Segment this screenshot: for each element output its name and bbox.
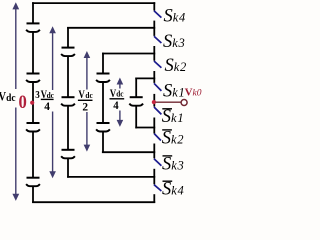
svg-text:dc: dc bbox=[85, 90, 93, 100]
capacitor Cdc3 (DC-link, third) bbox=[26, 123, 40, 132]
wire: bus F (S&#773;k2/S&#773;k3 junction to flying-cap branch 3) bbox=[102, 151, 155, 153]
svg-text:dc: dc bbox=[6, 92, 16, 104]
capacitor Cdc2 (DC-link, second) bbox=[26, 74, 40, 83]
svg-text:Sk2: Sk2 bbox=[162, 129, 184, 149]
annotation arrow Vdc (double-headed, full DC bus) bbox=[12, 2, 19, 201]
svg-text:4: 4 bbox=[44, 100, 50, 113]
label Vdc/4 (flying cap branch 4 voltage) bbox=[110, 88, 125, 112]
label S&#773;k2 bbox=[162, 129, 184, 149]
label S&#773;k4 bbox=[162, 179, 184, 199]
svg-text:2: 2 bbox=[82, 100, 88, 113]
switch S&#773;k1 blade bbox=[154, 107, 161, 114]
wire: flying-cap branch 2 segments (x=68) bbox=[67, 27, 69, 178]
capacitor Cdc1 (DC-link, top) bbox=[26, 23, 40, 32]
wire: flying-cap branch 4 segments (x=136.2) bbox=[135, 78, 137, 129]
svg-text:dc: dc bbox=[116, 89, 124, 99]
switch Sk1 blade bbox=[154, 83, 161, 91]
svg-text:Sk4: Sk4 bbox=[164, 6, 186, 26]
wire: bus D (Sk2/Sk1 junction to flying-cap branch 4) bbox=[135, 77, 155, 79]
annotation arrow Vdc/2 (bus C to bus F) bbox=[84, 51, 91, 152]
wire: DC-link branch 1 segments (x=33) bbox=[32, 2, 34, 203]
annotation arrow Vdc/4 (bus D to bus E) bbox=[117, 78, 124, 127]
wire: bus C (Sk3/Sk2 junction to flying-cap branch 3) bbox=[102, 53, 155, 55]
capacitor C1 (branch 4) bbox=[129, 97, 143, 106]
capacitor C3a (branch 2 top) bbox=[61, 48, 75, 57]
capacitor C3c (branch 2 bottom) bbox=[61, 150, 75, 159]
wire: bottom DC bus bbox=[32, 201, 155, 203]
svg-text:3: 3 bbox=[35, 90, 40, 102]
svg-text:Sk1: Sk1 bbox=[163, 81, 185, 101]
label Vdc (source voltage) bbox=[0, 90, 16, 104]
node k (phase output) junction dot bbox=[152, 100, 156, 104]
wire: bus B (Sk4/Sk3 junction to flying-cap branch 2) bbox=[67, 27, 155, 29]
wire: bus E (S&#773;k1/S&#773;k2 junction to flying-cap branch 4) bbox=[135, 127, 155, 129]
capacitor C2a (branch 3 top) bbox=[96, 74, 110, 83]
svg-text:Sk3: Sk3 bbox=[163, 32, 185, 52]
switch Sk3 blade bbox=[154, 36, 161, 43]
switch S&#773;k4 blade bbox=[154, 185, 161, 191]
switch Sk4 blade bbox=[154, 11, 161, 18]
switch Sk2 blade bbox=[154, 61, 161, 68]
wire: output lead to terminal Vk0 bbox=[156, 101, 182, 103]
node 0 junction dot on DC-link midpoint bbox=[30, 101, 34, 105]
svg-text:Sk2: Sk2 bbox=[165, 56, 187, 76]
label Vdc/2 (flying cap branch 3 voltage) bbox=[78, 89, 93, 113]
capacitor C3b (branch 2 middle) bbox=[61, 97, 75, 106]
capacitor Cdc4 (DC-link, bottom) bbox=[26, 178, 40, 187]
svg-text:Sk1: Sk1 bbox=[162, 107, 184, 127]
label S&#773;k3 bbox=[162, 155, 184, 175]
svg-text:0: 0 bbox=[19, 91, 28, 112]
label 3Vdc/4 (flying cap branch 2 voltage) bbox=[35, 89, 54, 113]
svg-text:Sk3: Sk3 bbox=[162, 155, 184, 175]
label S&#773;k1 bbox=[162, 107, 184, 127]
svg-text:4: 4 bbox=[113, 99, 119, 112]
svg-text:dc: dc bbox=[47, 90, 55, 100]
annotation arrow 3Vdc/4 (bus B to bus G) bbox=[49, 26, 56, 178]
wire: switch column segments (x=154.3) bbox=[153, 2, 155, 203]
svg-text:Vk0: Vk0 bbox=[185, 87, 202, 99]
switch S&#773;k3 blade bbox=[154, 159, 161, 166]
output terminal circle bbox=[181, 100, 187, 106]
capacitor C2b (branch 3 bottom) bbox=[96, 123, 110, 132]
switch S&#773;k2 blade bbox=[154, 134, 161, 141]
wire: flying-cap branch 3 segments (x=103) bbox=[102, 53, 104, 153]
wire: top DC bus bbox=[32, 2, 155, 4]
svg-text:Sk4: Sk4 bbox=[162, 179, 184, 199]
wire: bus G (S&#773;k3/S&#773;k4 junction to flying-cap branch 2) bbox=[67, 176, 155, 178]
